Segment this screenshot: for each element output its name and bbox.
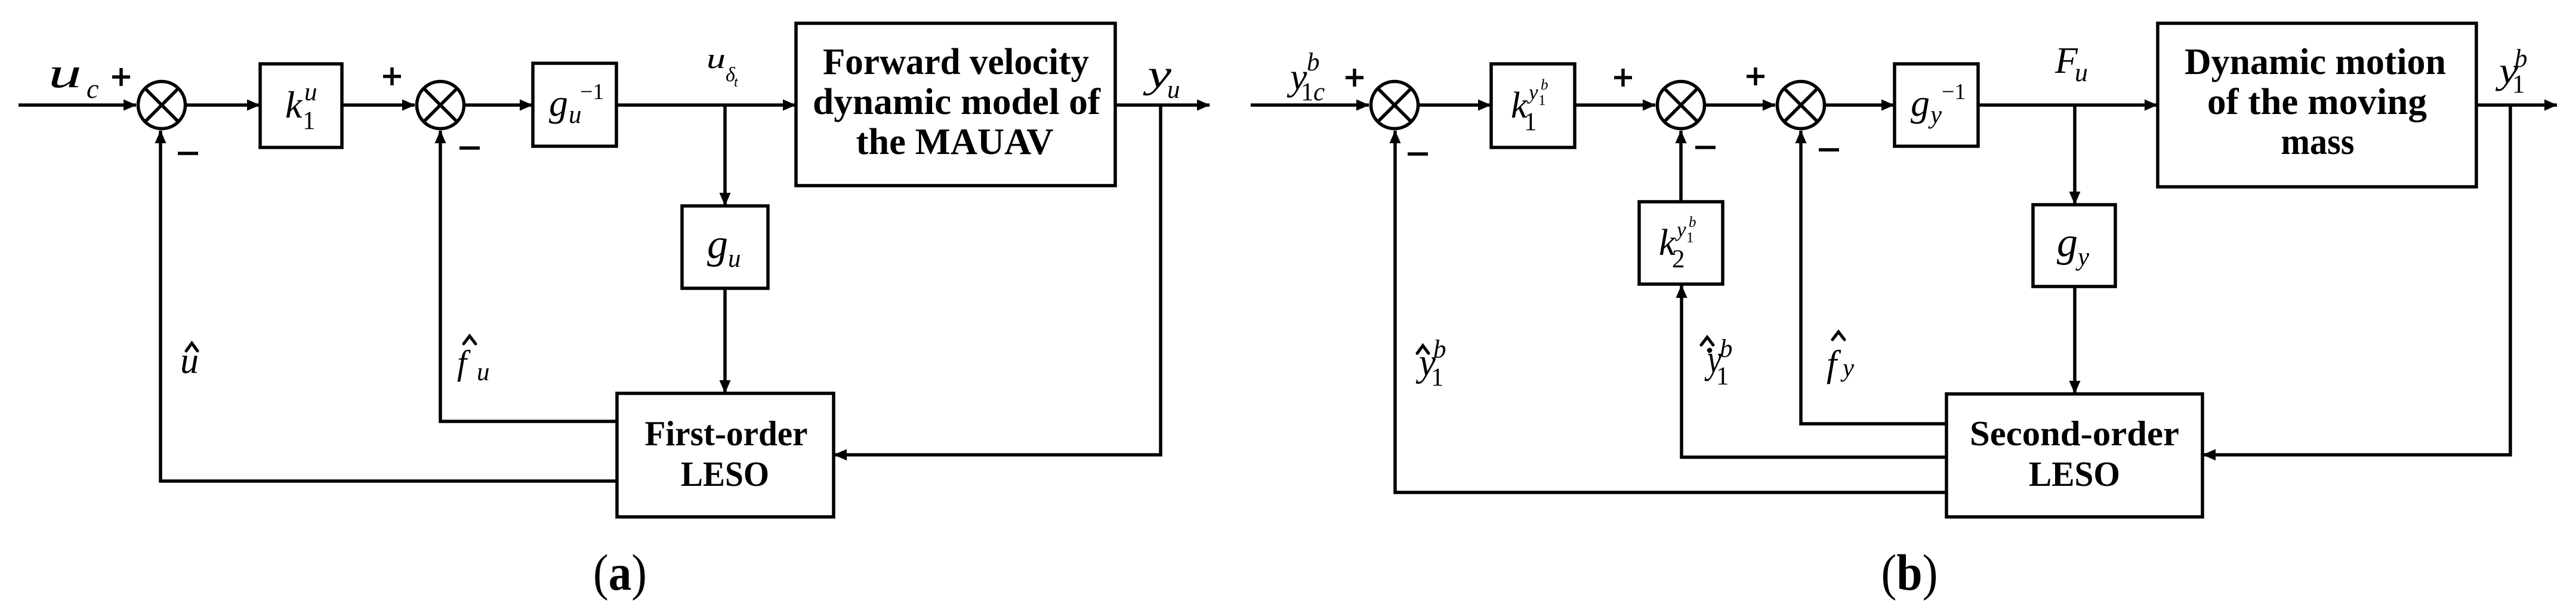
svg-text:k: k bbox=[285, 84, 303, 126]
wire: S3b to block gy-inverse bbox=[1826, 103, 1894, 107]
wire: f_y-hat feedback from LESO to S3b bbox=[1801, 131, 1946, 424]
plus and minus signs drawn as strokes bbox=[112, 67, 1839, 154]
svg-text:b: b bbox=[1720, 335, 1733, 363]
svg-text:g: g bbox=[2057, 220, 2078, 266]
sign plus at S1b bbox=[1346, 69, 1363, 87]
svg-text:−1: −1 bbox=[1942, 79, 1966, 104]
wire: k1u to summing junction S2a bbox=[342, 103, 415, 107]
svg-text:u: u bbox=[48, 49, 82, 97]
block: Second-order LESO bbox=[1946, 394, 2202, 517]
svg-text:LESO: LESO bbox=[2029, 454, 2120, 494]
svg-text:Dynamic motion: Dynamic motion bbox=[2185, 42, 2446, 82]
hats and derivative dot drawn as strokes bbox=[186, 332, 1844, 353]
wire: drop from node F_u down into gy block bbox=[2073, 105, 2077, 204]
block gu bbox=[682, 206, 768, 288]
hat of y1-hat label bbox=[1417, 346, 1429, 353]
svg-text:f: f bbox=[1827, 344, 1841, 384]
wire: S2a to block gu-inverse bbox=[465, 103, 532, 107]
svg-text:b: b bbox=[1541, 77, 1548, 93]
svg-text:g: g bbox=[1911, 82, 1930, 124]
svg-text:u: u bbox=[1167, 76, 1180, 104]
wire: k1y to summing junction S2b bbox=[1575, 103, 1655, 107]
wire: S2b to summing junction S3b bbox=[1706, 103, 1775, 107]
svg-text:b: b bbox=[2515, 45, 2528, 73]
hat of y1dot-hat label bbox=[1701, 337, 1713, 345]
hat of f_y-hat label bbox=[1832, 332, 1844, 340]
wire: gu-inverse to forward-velocity block (node u_delta_t) bbox=[616, 103, 795, 107]
sign minus at S1a bbox=[178, 152, 198, 155]
svg-text:dynamic model of: dynamic model of bbox=[813, 82, 1101, 122]
summing junction S3b bbox=[1778, 82, 1825, 129]
sign plus at S1a bbox=[112, 68, 130, 86]
summing junction S2b bbox=[1658, 82, 1705, 129]
block k1u bbox=[260, 64, 342, 147]
svg-text:1: 1 bbox=[1301, 78, 1314, 106]
wire: y1b feedback down into LESO right side bbox=[2203, 105, 2510, 455]
svg-text:u: u bbox=[180, 341, 199, 381]
svg-text:2: 2 bbox=[1672, 245, 1685, 273]
svg-text:1: 1 bbox=[1716, 362, 1729, 390]
sign minus at S3b bbox=[1819, 148, 1839, 152]
svg-text:u: u bbox=[728, 245, 741, 273]
wire: gy-inverse to dynamic-motion block (node F_u) bbox=[1978, 103, 2157, 107]
svg-text:y: y bbox=[1527, 81, 1538, 104]
svg-text:u: u bbox=[304, 78, 317, 106]
svg-text:(a): (a) bbox=[593, 544, 647, 601]
svg-text:t: t bbox=[734, 75, 739, 90]
wire: y_u feedback down into LESO right side bbox=[834, 105, 1161, 455]
block k2y bbox=[1639, 202, 1723, 284]
sign minus at S2a bbox=[459, 146, 480, 150]
wire: gu down into First-order LESO bbox=[723, 288, 727, 393]
svg-text:First-order: First-order bbox=[645, 414, 808, 453]
derivative dot of y1dot-hat label bbox=[1707, 348, 1713, 353]
svg-text:1: 1 bbox=[1524, 108, 1537, 136]
svg-text:u: u bbox=[477, 358, 490, 386]
block: Forward velocity dynamic model of the MAUAV bbox=[796, 23, 1115, 186]
svg-text:y: y bbox=[1675, 218, 1686, 241]
svg-text:−1: −1 bbox=[580, 79, 604, 104]
block gy bbox=[2033, 205, 2115, 286]
svg-text:b: b bbox=[1689, 214, 1696, 230]
wire: drop from node u_delta_t down into gu block bbox=[723, 105, 727, 205]
svg-text:1: 1 bbox=[1686, 230, 1694, 246]
block gy-inverse bbox=[1895, 64, 1978, 146]
block: First-order LESO bbox=[617, 393, 834, 517]
svg-text:1: 1 bbox=[2512, 70, 2525, 98]
hat of f_u-hat label bbox=[464, 336, 476, 344]
svg-text:c: c bbox=[1313, 78, 1325, 106]
wire: k2 up into S2b bbox=[1679, 131, 1683, 202]
svg-text:1: 1 bbox=[1538, 93, 1546, 109]
svg-text:u: u bbox=[2075, 58, 2088, 87]
wire: f_u-hat feedback from LESO to S2a bbox=[440, 131, 617, 421]
svg-text:c: c bbox=[87, 73, 98, 104]
wire: S1a to block k1u bbox=[187, 103, 260, 107]
svg-text:1: 1 bbox=[1431, 363, 1444, 392]
svg-text:mass: mass bbox=[2281, 122, 2355, 162]
svg-text:LESO: LESO bbox=[681, 454, 769, 494]
svg-text:b: b bbox=[1307, 48, 1320, 76]
block k1y bbox=[1491, 64, 1575, 147]
svg-text:the MAUAV: the MAUAV bbox=[856, 122, 1054, 162]
hat of u-hat label bbox=[186, 343, 198, 351]
svg-text:b: b bbox=[1433, 335, 1446, 363]
svg-text:u: u bbox=[569, 101, 582, 129]
sign plus at S3b bbox=[1747, 67, 1764, 85]
svg-text:Second-order: Second-order bbox=[1970, 414, 2179, 453]
svg-text:g: g bbox=[549, 82, 568, 124]
svg-text:Forward velocity: Forward velocity bbox=[823, 42, 1089, 82]
svg-text:y: y bbox=[1840, 354, 1855, 382]
wire: y1-hat feedback from LESO to S1b bbox=[1395, 131, 1946, 492]
wire: y1dot-hat feedback from LESO up into k2 block bbox=[1682, 285, 1946, 457]
summing junction S1a bbox=[138, 82, 186, 129]
summing junction S2a bbox=[417, 82, 464, 129]
block: Dynamic motion of the moving mass bbox=[2158, 23, 2476, 187]
sign plus at S2a bbox=[383, 67, 401, 85]
svg-text:(b): (b) bbox=[1881, 544, 1938, 601]
wire: S1b to block k1y bbox=[1420, 103, 1491, 107]
summing junction S1b bbox=[1371, 82, 1418, 129]
svg-text:y: y bbox=[2075, 243, 2090, 271]
svg-text:of the moving: of the moving bbox=[2207, 82, 2427, 122]
wire: u-hat feedback from LESO to S1a bbox=[161, 131, 617, 481]
sign plus at S2b bbox=[1614, 69, 1632, 87]
wire: input u_c into summing junction S1a bbox=[18, 103, 136, 107]
wire: model output y_u bbox=[1115, 103, 1210, 107]
svg-text:g: g bbox=[707, 221, 728, 267]
wire: input y1c into summing junction S1b bbox=[1251, 103, 1369, 107]
svg-text:y: y bbox=[1928, 101, 1942, 129]
block gu-inverse bbox=[533, 63, 616, 146]
svg-text:f: f bbox=[457, 343, 471, 382]
wire: model output y1b bbox=[2476, 103, 2557, 107]
svg-text:1: 1 bbox=[303, 107, 316, 135]
svg-text:u: u bbox=[707, 43, 726, 75]
sign minus at S1b bbox=[1408, 152, 1428, 156]
sign minus at S2b bbox=[1695, 146, 1716, 149]
wire: gy down into Second-order LESO bbox=[2073, 286, 2077, 393]
